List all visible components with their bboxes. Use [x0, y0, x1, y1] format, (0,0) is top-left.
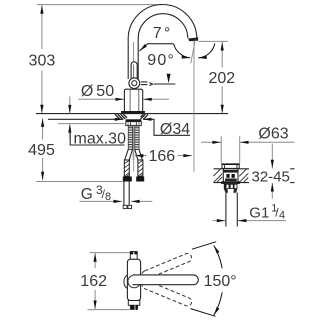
svg-text:202: 202 [208, 70, 235, 87]
svg-text:Ø34: Ø34 [160, 121, 190, 138]
svg-text:50: 50 [96, 83, 114, 100]
svg-text:166: 166 [149, 148, 176, 165]
svg-text:32-45: 32-45 [252, 168, 290, 185]
svg-text:Ø63: Ø63 [258, 126, 288, 143]
svg-text:Ø: Ø [81, 83, 93, 100]
svg-text:495: 495 [28, 142, 55, 159]
svg-text:G1: G1 [249, 205, 269, 222]
svg-text:90°: 90° [147, 52, 175, 69]
svg-text:4: 4 [279, 209, 285, 221]
svg-text:162: 162 [80, 273, 107, 290]
svg-text:max.30: max.30 [74, 131, 127, 148]
svg-text:150°: 150° [204, 273, 237, 290]
svg-text:7°: 7° [153, 25, 173, 42]
svg-text:G: G [81, 186, 93, 203]
svg-text:303: 303 [29, 52, 56, 69]
